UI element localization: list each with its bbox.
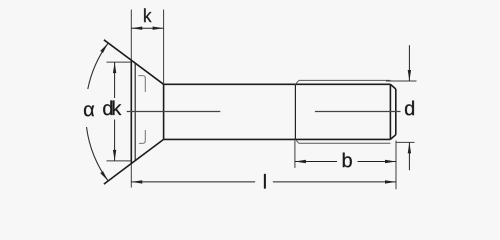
upper cone face with alpha extension [104, 40, 164, 85]
dimension l [131, 181, 396, 183]
label alpha [84, 105, 94, 116]
dimension b [295, 141, 396, 190]
chamfered end [390, 84, 395, 89]
label l [264, 174, 266, 188]
thread crest lines [299, 79, 391, 81]
label d [405, 101, 414, 116]
thread runout [294, 84, 296, 139]
cone-shank junction [163, 84, 165, 139]
center line [127, 111, 401, 113]
dimension dk [107, 62, 132, 161]
label dk [103, 101, 112, 116]
label b [343, 153, 352, 168]
shank top edge [164, 83, 391, 85]
shank bottom edge [164, 138, 391, 140]
angle alpha arc [87, 43, 109, 181]
dimension d [386, 81, 417, 142]
dimension k [131, 27, 163, 29]
head inner face line [134, 64, 136, 161]
head left face (countersunk screw head) [130, 10, 132, 188]
hex socket hidden detail [138, 76, 145, 144]
lower cone face with alpha extension [104, 139, 164, 184]
label k [144, 8, 151, 22]
